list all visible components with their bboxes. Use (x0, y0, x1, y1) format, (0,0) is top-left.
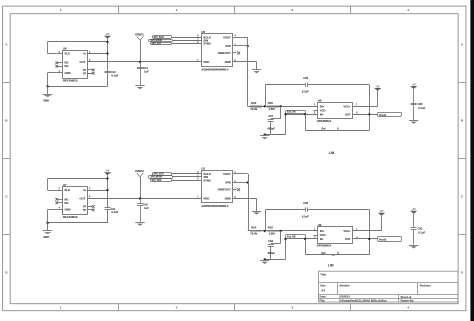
svg-text:Date:: Date: (320, 295, 327, 299)
svg-text:IN+: IN+ (320, 104, 325, 108)
svg-text:File:: File: (320, 298, 326, 302)
svg-text:0.1uF: 0.1uF (111, 210, 118, 214)
svg-text:72.4k: 72.4k (250, 232, 257, 236)
svg-text:C10: C10 (111, 70, 116, 74)
svg-text:1: 1 (60, 305, 62, 309)
svg-text:+5V: +5V (376, 86, 381, 88)
svg-text:IN+: IN+ (320, 229, 325, 233)
svg-text:LIM: LIM (329, 151, 335, 155)
svg-text:GND: GND (225, 197, 231, 201)
svg-text:REF196GS: REF196GS (63, 79, 78, 83)
svg-text:3: 3 (292, 8, 294, 12)
svg-text:VDD: VDD (203, 197, 209, 201)
svg-text:SYNC: SYNC (203, 178, 211, 182)
svg-text:4: 4 (407, 8, 409, 12)
svg-text:Ref: Ref (321, 251, 325, 255)
svg-text:OUT: OUT (80, 196, 86, 200)
svg-text:U9: U9 (318, 223, 322, 227)
svg-text:C28: C28 (418, 102, 423, 106)
svg-text:TP: TP (83, 205, 87, 209)
svg-text:Title: Title (320, 272, 326, 276)
svg-text:VDD: VDD (203, 60, 209, 64)
svg-text:1uF: 1uF (144, 206, 149, 210)
svg-text:VREF1: VREF1 (135, 33, 144, 37)
svg-text:NC: NC (65, 201, 69, 205)
svg-text:Ext_VB: Ext_VB (287, 111, 296, 114)
svg-text:VFB: VFB (225, 44, 231, 48)
svg-text:U6: U6 (63, 46, 67, 50)
svg-text:SLE: SLE (65, 188, 71, 192)
svg-text:2: 2 (176, 305, 178, 309)
svg-text:U2: U2 (201, 167, 205, 171)
svg-text:D:\Design\FuelGCB 1.0\DAC 5620: D:\Design\FuelGCB 1.0\DAC 5620o.SchDoc (339, 299, 387, 302)
svg-text:TP: TP (83, 208, 87, 212)
svg-text:+5V: +5V (379, 211, 384, 213)
svg-text:OPA350EA: OPA350EA (317, 244, 332, 248)
svg-text:1: 1 (60, 8, 62, 12)
svg-text:OUT: OUT (345, 237, 351, 241)
svg-text:NC: NC (65, 197, 69, 201)
svg-text:5.1nF: 5.1nF (302, 214, 309, 218)
svg-text:Vout1: Vout1 (379, 113, 387, 117)
svg-text:OUT: OUT (345, 112, 351, 116)
svg-text:C25: C25 (303, 76, 308, 80)
svg-text:VOUT: VOUT (223, 35, 231, 39)
svg-text:VCC-: VCC- (320, 108, 327, 112)
svg-text:C27: C27 (268, 114, 273, 118)
svg-text:R15: R15 (268, 226, 274, 230)
svg-text:R16: R16 (251, 101, 257, 105)
svg-text:3: 3 (292, 305, 294, 309)
svg-text:SPI_SS1: SPI_SS1 (152, 42, 163, 45)
svg-text:C30: C30 (303, 201, 308, 205)
svg-text:R14: R14 (251, 226, 257, 230)
svg-text:5.1nF: 5.1nF (302, 90, 309, 94)
svg-text:VREFOUT: VREFOUT (218, 51, 231, 55)
svg-text:Ref: Ref (321, 126, 325, 130)
svg-text:C15: C15 (143, 202, 148, 206)
svg-text:U7: U7 (63, 183, 67, 187)
svg-text:LIM: LIM (328, 263, 334, 267)
svg-text:GND: GND (43, 98, 49, 102)
svg-text:U8: U8 (318, 98, 322, 102)
svg-text:1.5M: 1.5M (269, 107, 276, 111)
svg-text:Vout2: Vout2 (379, 238, 387, 242)
svg-text:VCC+: VCC+ (343, 104, 351, 108)
svg-text:GND: GND (43, 235, 49, 239)
svg-text:2/1/2010: 2/1/2010 (339, 295, 350, 299)
svg-text:R19: R19 (268, 101, 274, 105)
svg-text:VOUT: VOUT (223, 172, 231, 176)
svg-text:IN-: IN- (320, 112, 324, 116)
svg-text:Sheet of: Sheet of (401, 295, 412, 299)
svg-text:C32: C32 (268, 239, 273, 243)
svg-text:72.4k: 72.4k (250, 107, 257, 111)
svg-text:C11: C11 (111, 207, 116, 211)
svg-text:TP: TP (83, 68, 87, 72)
svg-text:Number: Number (340, 283, 350, 287)
svg-text:+5V: +5V (105, 171, 110, 173)
svg-text:REF196GS: REF196GS (63, 215, 78, 219)
svg-text:U5: U5 (201, 30, 205, 34)
svg-text:Drawn By:: Drawn By: (401, 298, 415, 302)
svg-text:+5V: +5V (412, 84, 417, 86)
svg-text:+5V: +5V (105, 34, 110, 36)
svg-text:GND: GND (225, 60, 231, 64)
svg-text:0.1uF: 0.1uF (418, 106, 425, 110)
svg-text:GND: GND (65, 71, 71, 75)
svg-text:AD5620/5640/5660-1: AD5620/5640/5660-1 (201, 67, 229, 71)
svg-text:VFB: VFB (225, 181, 231, 185)
svg-text:C31: C31 (418, 227, 423, 231)
svg-text:C14: C14 (143, 66, 148, 70)
svg-text:AD5620/5640/5660-1: AD5620/5640/5660-1 (201, 204, 229, 208)
svg-text:2: 2 (176, 8, 178, 12)
svg-text:SYNC: SYNC (203, 42, 211, 46)
svg-text:VCC-: VCC- (320, 233, 327, 237)
svg-text:VREFOUT: VREFOUT (218, 188, 231, 192)
svg-text:430pF: 430pF (267, 127, 275, 131)
svg-text:Revision: Revision (420, 283, 432, 287)
svg-text:V+: V+ (83, 52, 87, 56)
svg-text:V+: V+ (83, 188, 87, 192)
svg-text:OUT: OUT (80, 60, 86, 64)
svg-text:0.1uF: 0.1uF (418, 231, 425, 235)
svg-text:SLE: SLE (65, 52, 71, 56)
svg-text:430pF: 430pF (267, 251, 275, 255)
svg-text:Size: Size (320, 283, 326, 287)
svg-text:TP: TP (83, 71, 87, 75)
svg-text:NC: NC (65, 61, 69, 65)
svg-text:1.5M: 1.5M (269, 232, 276, 236)
svg-text:OPA350EA: OPA350EA (317, 119, 332, 123)
svg-text:SPI_SS2: SPI_SS2 (152, 179, 163, 182)
svg-text:+5V: +5V (412, 209, 417, 211)
svg-text:A4: A4 (321, 289, 325, 293)
svg-text:IN-: IN- (320, 237, 324, 241)
svg-text:1uF: 1uF (144, 70, 149, 74)
svg-text:VREF2: VREF2 (135, 169, 144, 173)
svg-text:Ext_VB: Ext_VB (287, 235, 296, 238)
svg-text:GND: GND (65, 208, 71, 212)
svg-text:4: 4 (407, 305, 409, 309)
svg-text:0.1uF: 0.1uF (111, 74, 118, 78)
svg-text:NC: NC (65, 64, 69, 68)
svg-text:VCC+: VCC+ (343, 229, 351, 233)
